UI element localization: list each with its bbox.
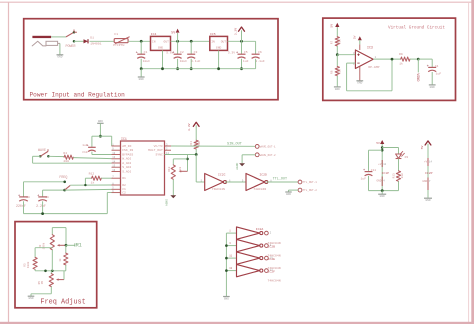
svg-text:Virtual Ground Circuit: Virtual Ground Circuit: [388, 25, 445, 31]
capacitor C11 1uF: [365, 171, 373, 173]
svg-text:4: 4: [383, 180, 385, 183]
wire jack sleeve to ground: [58, 42, 60, 44]
wire 3.3V node down to capacitor C6: [255, 41, 257, 54]
capacitor C10 1uF bypass: [88, 146, 96, 148]
IC1 right pin stubs: [165, 145, 172, 147]
svg-text:Power Input and Regulation: Power Input and Regulation: [30, 92, 126, 99]
node VGND junction: [417, 58, 420, 61]
wire bottom rail up to pin C2: [106, 193, 108, 214]
wire IC2C output to IC2D input: [225, 181, 246, 183]
power symbol 3.3V arrow: [239, 27, 245, 31]
wire pot R5 top: [50, 271, 52, 274]
svg-text:C11: C11: [371, 169, 377, 172]
svg-text:OP-AMP: OP-AMP: [368, 65, 379, 69]
svg-text:IC2A: IC2A: [256, 227, 264, 231]
svg-text:R11: R11: [190, 141, 193, 146]
svg-text:C9: C9: [45, 196, 49, 199]
wire SYNC to pull-up node: [165, 154, 197, 156]
wire R6 to mid rail: [65, 265, 67, 271]
power symbol 5V arrow for IC1P: [380, 140, 384, 144]
svg-text:SYNC: SYNC: [155, 152, 162, 156]
svg-text:10k: 10k: [197, 141, 201, 146]
svg-text:13: 13: [229, 267, 232, 270]
svg-text:74HC04N: 74HC04N: [268, 278, 281, 282]
ground GND under IC1P: [378, 193, 386, 195]
wire WAVE common to A_ADJ net: [33, 155, 41, 157]
wire op-amp inverting input feedback: [347, 62, 356, 64]
fuse F1 PTCPTH: [114, 39, 128, 43]
svg-text:IN: IN: [211, 41, 215, 44]
wire input of unused gate row 1: [226, 232, 236, 234]
node IC1P ground junction: [381, 189, 384, 192]
svg-text:+: +: [172, 52, 175, 56]
wire cap C9 to FREQ switch bottom contact: [43, 189, 65, 191]
node ground bus junction: [225, 269, 228, 272]
svg-text:200: 200: [63, 159, 69, 163]
pin WAVE_OUT-2: [255, 153, 259, 157]
wire SYNC branch to trimpot R10: [187, 155, 189, 172]
wire WAVE_OUT-2 to AGND: [242, 154, 255, 156]
svg-text:IC4: IC4: [151, 32, 157, 36]
svg-text:C4: C4: [435, 64, 439, 68]
svg-text:GND: GND: [158, 47, 164, 50]
svg-text:POWER: POWER: [66, 45, 76, 49]
wire C9 to bottom rail: [42, 201, 44, 213]
svg-text:1uF: 1uF: [436, 72, 442, 76]
wire WAVE switch to resistor R4: [48, 155, 64, 157]
svg-text:330: 330: [401, 173, 404, 178]
svg-text:R7: R7: [330, 41, 333, 45]
pot R5 wiper: [58, 279, 65, 281]
schematic page frame: [0, 1, 474, 3]
wire C1 to ground rail: [140, 59, 142, 69]
power jack J1 tip bar: [32, 36, 51, 38]
wire R13 to bottom rail: [398, 181, 400, 190]
svg-text:12: 12: [383, 163, 386, 166]
ground GND under gate bus: [223, 296, 230, 298]
wire 3.3V node to capacitor C5: [241, 41, 243, 54]
ground AGND under WAVE_OUT-2: [239, 163, 245, 166]
svg-text:11: 11: [229, 255, 232, 258]
svg-text:220nF: 220nF: [16, 204, 26, 208]
svg-text:OUT: OUT: [164, 41, 170, 44]
wire IC1P bottom rail: [369, 190, 399, 192]
wire pot R5 bottom to ground: [50, 287, 52, 294]
svg-text:C1: C1: [144, 50, 148, 54]
wire R11 to SYNC node: [195, 149, 197, 155]
svg-text:IC3: IC3: [367, 45, 373, 49]
wire ground bus for unused gates: [225, 233, 227, 296]
voltage regulator IC5 3.3V: [210, 36, 228, 50]
svg-text:TTL_OUT: TTL_OUT: [273, 177, 287, 181]
svg-text:C6: C6: [258, 50, 262, 54]
svg-text:WAVE_OUT-1: WAVE_OUT-1: [260, 145, 276, 148]
wire FREQ top net down to capacitor C8: [23, 182, 25, 197]
svg-text:1uF: 1uF: [361, 178, 367, 181]
resistor R12 1k: [92, 176, 102, 180]
wire resistor R3 top: [35, 247, 52, 249]
svg-text:5V: 5V: [330, 24, 334, 28]
svg-text:IC2B: IC2B: [268, 244, 276, 248]
inverter IC2A 74HC04N: [237, 227, 260, 239]
svg-text:74HC04N: 74HC04N: [253, 187, 266, 191]
wire switch to diode D1: [74, 40, 84, 42]
voltage regulator IC4 5V: [151, 36, 171, 50]
IC1P power pins: [381, 160, 383, 167]
trimpot R10: [171, 165, 175, 179]
svg-text:IC2C: IC2C: [218, 173, 226, 177]
svg-text:C2: C2: [180, 50, 184, 54]
wire R3 to mid rail: [34, 269, 36, 271]
wire FREQ bottom net down to capacitor C9: [42, 190, 44, 197]
wire diode to fuse F1: [90, 40, 115, 42]
svg-text:C2: C2: [122, 191, 126, 195]
svg-text:OUT: OUT: [221, 41, 227, 44]
node SYNC junction: [195, 153, 198, 156]
svg-text:R1: R1: [76, 243, 82, 249]
svg-text:R12: R12: [89, 172, 95, 176]
svg-text:GND: GND: [357, 82, 362, 85]
svg-text:WAVE: WAVE: [38, 149, 46, 153]
power jack J1 sleeve: [32, 41, 46, 46]
wire C4 to ground: [431, 72, 433, 85]
wire 5V node to capacitor C2: [177, 41, 179, 54]
power symbol 5V chevron for IC2P: [425, 141, 431, 145]
svg-text:3.3V: 3.3V: [187, 123, 191, 131]
svg-text:10uF: 10uF: [143, 59, 151, 63]
svg-text:+V: +V: [378, 163, 382, 166]
node 3.3V junction: [240, 40, 243, 43]
wire IC1P power column: [381, 144, 383, 191]
wire input of unused gate row 3: [226, 245, 236, 247]
svg-text:GND: GND: [425, 199, 430, 202]
svg-text:GND: GND: [216, 47, 222, 50]
svg-text:GND: GND: [380, 195, 385, 198]
wire C5 to ground rail: [241, 59, 243, 69]
wire 3.3V to resistor R11: [195, 125, 197, 140]
wire FREQ contact to pin C1: [65, 188, 112, 191]
svg-text:AGND: AGND: [236, 162, 239, 169]
wire junction to capacitor C10: [92, 135, 101, 137]
wire 5V to capacitor C11 branch: [369, 149, 383, 151]
ground GND under C4: [429, 84, 436, 86]
op-amp IC3: [355, 50, 373, 69]
capacitor C3 0.1uF: [187, 53, 195, 55]
svg-text:14: 14: [429, 161, 432, 164]
svg-text:IC2P: IC2P: [425, 171, 433, 175]
svg-text:1uF: 1uF: [243, 59, 249, 63]
svg-text:+V: +V: [424, 161, 428, 164]
node bypass junction: [99, 135, 102, 138]
inverter IC2B 74HC04N: [237, 239, 260, 251]
svg-text:74HC04N: 74HC04N: [212, 187, 225, 191]
svg-text:GND: GND: [57, 56, 62, 59]
svg-text:3: 3: [229, 242, 231, 245]
ground GND under R8: [334, 86, 341, 88]
wire op-amp output: [373, 58, 401, 60]
wire R8 to ground: [336, 76, 338, 87]
svg-text:GND: GND: [422, 180, 427, 183]
svg-text:2: 2: [270, 232, 272, 235]
pin circle IC2A output: [265, 231, 269, 235]
svg-text:50k: 50k: [178, 166, 182, 171]
svg-text:C3: C3: [194, 50, 198, 54]
wire R9 to VGND node: [410, 58, 418, 60]
wire R7 to node VREF: [336, 46, 338, 55]
ground AGND under R10: [170, 195, 176, 198]
svg-text:GND: GND: [139, 78, 144, 81]
svg-text:10uF: 10uF: [180, 59, 188, 63]
svg-text:FREQ: FREQ: [59, 176, 67, 180]
svg-text:1k: 1k: [58, 258, 62, 262]
svg-text:SIN_OUT: SIN_OUT: [227, 143, 242, 147]
svg-text:IN: IN: [152, 41, 156, 44]
svg-text:IC1P: IC1P: [382, 171, 390, 175]
svg-text:GND: GND: [377, 180, 382, 183]
svg-text:+: +: [136, 52, 139, 56]
potentiometer R5 1M: [49, 274, 53, 287]
wire FREQ switch to pin R2: [70, 184, 111, 186]
wire C3 to ground rail: [190, 59, 192, 69]
wire SIN_OUT from pin VC/TC: [171, 145, 255, 147]
svg-text:TTL_OUT-1: TTL_OUT-1: [303, 181, 318, 184]
wire node to capacitor C3: [190, 41, 192, 54]
svg-text:IC2F: IC2F: [268, 269, 276, 273]
wire C10 to pin BYPASS: [91, 152, 93, 155]
power symbol 3.3V for pull-up R11: [193, 122, 199, 126]
pin circle IC2F output: [265, 269, 269, 273]
wire A_ADJ long net: [33, 162, 112, 164]
resistor R13 330: [396, 171, 400, 181]
svg-text:WAVE_OUT-2: WAVE_OUT-2: [260, 154, 276, 157]
svg-text:IC1: IC1: [121, 137, 127, 141]
svg-text:10k: 10k: [338, 69, 342, 74]
wire VGND node to capacitor C4: [418, 58, 432, 60]
wire C8 to bottom rail: [23, 201, 25, 213]
capacitor C6 0.1uF: [252, 53, 260, 55]
svg-text:GND: GND: [286, 193, 291, 196]
svg-text:IC2E: IC2E: [268, 257, 276, 261]
inverter IC2D 74HC04N: [246, 174, 265, 191]
net label VGND: [417, 59, 419, 72]
wire 3.3V arrow to rail: [241, 30, 243, 41]
node VIN junction: [140, 40, 143, 43]
power symbol 5V arrow: [176, 29, 180, 33]
resistor R11 10k: [194, 140, 198, 149]
ground rail wire: [141, 68, 255, 70]
pin TTL_OUT-1: [298, 180, 302, 184]
capacitor C8 220nF: [19, 196, 28, 198]
svg-text:VGND: VGND: [415, 73, 419, 81]
IC1 left pin stubs: [112, 145, 121, 147]
ground GND under jack: [57, 54, 64, 56]
svg-text:0.1uF: 0.1uF: [255, 59, 264, 63]
svg-text:IC5: IC5: [210, 32, 216, 36]
wire TTL_OUT net: [266, 181, 298, 183]
svg-text:100k: 100k: [41, 242, 45, 249]
wire SYNC node down to buffer input: [195, 155, 197, 183]
capacitor C4 1uF: [428, 66, 436, 68]
section box Freq Adjust: [15, 222, 97, 308]
svg-text:R4: R4: [63, 151, 67, 155]
svg-text:1uF: 1uF: [82, 144, 88, 147]
svg-text:3.3V: 3.3V: [228, 50, 236, 54]
wire IC5 GND pin to ground rail: [218, 50, 220, 68]
svg-text:10k: 10k: [338, 39, 342, 44]
wire GND to junction above IC1: [99, 123, 101, 136]
wire R12 to pin R1: [101, 177, 111, 179]
svg-text:3.3V: 3.3V: [233, 28, 237, 36]
section box Power Input and Regulation: [24, 19, 278, 100]
wire divider node to op-amp noninverting input: [337, 54, 355, 56]
capacitor C5 1uF: [238, 53, 246, 55]
LED D3: [396, 154, 402, 158]
svg-text:GND: GND: [28, 297, 33, 300]
capacitor C2 10uF: [174, 53, 182, 55]
wire jack tip to switch: [51, 36, 66, 38]
resistor R9 1k: [401, 57, 410, 61]
op-amp positive supply pin with 5V arrow: [359, 44, 361, 50]
op-amp negative supply pin to ground: [359, 66, 361, 80]
svg-text:5V: 5V: [420, 146, 424, 150]
node R1 net junction: [65, 244, 68, 247]
svg-text:IC2D: IC2D: [259, 173, 267, 177]
capacitor C9 2.2nF: [38, 196, 47, 198]
wire IC1P ground stub: [381, 191, 383, 194]
potentiometer R2 100k: [50, 235, 54, 250]
pin WAVE_OUT-1: [255, 145, 259, 149]
svg-text:S_ADJ: S_ADJ: [122, 169, 131, 173]
svg-text:TTL_OUT-2: TTL_OUT-2: [303, 189, 318, 192]
node IC1P top junction: [381, 146, 384, 149]
ground GND of power section: [140, 67, 143, 70]
inverter IC2C 74HC04N: [205, 174, 224, 191]
svg-text:2.2nF: 2.2nF: [36, 204, 46, 208]
wire R4 to pin W_ADJ: [73, 158, 111, 159]
IC1 XR2206 function generator body: [121, 141, 165, 195]
svg-text:AGND: AGND: [165, 199, 168, 206]
svg-text:5V: 5V: [353, 35, 356, 39]
net label R1: [66, 244, 75, 246]
svg-text:5V: 5V: [376, 142, 380, 145]
svg-text:GND: GND: [224, 297, 229, 300]
section box Virtual Ground Circuit: [323, 18, 456, 100]
pot R2 wiper: [59, 244, 67, 246]
wire input of unused gate row 13: [226, 270, 236, 272]
svg-text:R9: R9: [399, 52, 403, 56]
wire fuse to regulator IC4 input: [128, 40, 150, 42]
ground GND under TTL_OUT-2: [285, 191, 291, 193]
resistor R3 100k: [33, 257, 37, 269]
svg-text:GND: GND: [430, 86, 435, 89]
svg-text:R8: R8: [330, 70, 333, 74]
svg-text:F1: F1: [114, 32, 118, 36]
wire IC4 output to 5V node: [171, 40, 210, 42]
svg-text:100k: 100k: [26, 261, 30, 268]
resistor R6 1k: [64, 253, 68, 265]
wire C11 to bottom rail: [368, 176, 370, 191]
power symbol 5V arrow for divider: [335, 23, 339, 27]
svg-text:1M: 1M: [41, 281, 44, 285]
wire R2 net to resistor R12: [84, 178, 86, 185]
mid rail wire: [35, 270, 66, 272]
svg-text:D1: D1: [90, 36, 94, 40]
ground GND under IC2P: [424, 197, 432, 199]
trimpot R10 wiper: [180, 170, 187, 172]
capacitor C1 10uF: [137, 53, 145, 55]
svg-text:C8: C8: [26, 196, 30, 199]
node ground bus junction: [225, 257, 228, 260]
svg-text:Freq Adjust: Freq Adjust: [40, 298, 85, 306]
svg-text:1: 1: [229, 230, 231, 233]
wire R10 to AGND: [172, 179, 174, 195]
ground GND of Freq Adjust: [28, 295, 35, 297]
node op-amp output junction: [391, 58, 394, 61]
wire TTL_OUT-2 to ground: [289, 189, 299, 191]
wire node to capacitor C1: [140, 41, 142, 54]
svg-text:5V: 5V: [171, 30, 175, 34]
wire node to resistor R6: [65, 245, 67, 253]
resistor R4 200: [64, 155, 73, 159]
svg-text:D3: D3: [405, 156, 409, 159]
wire 5V to resistor R7: [336, 27, 338, 37]
svg-text:C5: C5: [244, 50, 248, 54]
svg-text:7: 7: [429, 180, 431, 183]
wire C2 to ground rail: [177, 59, 179, 69]
svg-text:1k: 1k: [91, 180, 95, 184]
FREQ switch lever: [65, 185, 71, 190]
wire 5V arrow to rail: [177, 33, 179, 41]
svg-text:R1: R1: [122, 176, 126, 180]
wire IC2P power column: [427, 144, 429, 198]
wire LED to resistor R13: [398, 159, 400, 171]
IC2P power pins: [427, 158, 429, 166]
svg-text:PTCPTH: PTCPTH: [113, 43, 124, 47]
wire IC4 GND pin to ground rail: [162, 50, 164, 68]
node C3 junction: [190, 40, 193, 43]
svg-text:R10: R10: [168, 166, 171, 171]
ground GND under op-amp: [356, 80, 363, 82]
svg-text:0.1uF: 0.1uF: [191, 59, 200, 63]
pin circle IC2B output: [265, 244, 269, 248]
wire 5V to LED branch: [382, 147, 398, 149]
svg-text:GND: GND: [335, 88, 340, 91]
bottom timing rail wire: [24, 213, 108, 215]
pin TTL_OUT-2: [298, 188, 302, 192]
node divider junction: [336, 53, 339, 56]
diode D1 1N4001: [84, 39, 89, 43]
svg-text:R13: R13: [393, 173, 396, 178]
node 5V junction: [176, 40, 179, 43]
wire node to resistor R8: [336, 55, 338, 67]
wire input of unused gate row 11: [226, 257, 236, 259]
svg-text:1k: 1k: [399, 61, 403, 65]
switch S1 POWER: [66, 32, 74, 37]
node ground bus junction: [225, 244, 228, 247]
resistor R8 10k: [335, 67, 339, 76]
wire cap C8 to FREQ switch top contact: [24, 181, 65, 183]
wire IC5 output to 3.3V node: [228, 40, 256, 42]
svg-text:C10: C10: [82, 151, 88, 154]
wire pot R2 top loop: [51, 228, 53, 235]
inverter IC2E 74HC04N: [237, 252, 260, 264]
svg-text:+: +: [236, 52, 239, 56]
inverter IC2F 74HC04N: [237, 264, 260, 276]
wire C6 to ground rail: [255, 59, 257, 69]
wire junction to pin AM_IN: [100, 135, 111, 137]
svg-text:1N4001: 1N4001: [90, 42, 101, 46]
wire pot R2 bottom to mid rail: [51, 250, 53, 271]
